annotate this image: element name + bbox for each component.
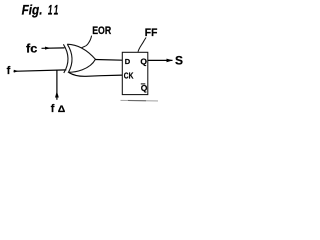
svg-text:fc: fc: [26, 43, 38, 55]
wire fc input: [42, 47, 65, 49]
wire f input: [14, 70, 67, 71]
XOR gate U1 body: [67, 44, 95, 72]
wire XOR output to D: [95, 59, 122, 62]
scan artifact streak: [121, 99, 159, 102]
svg-text:f: f: [51, 103, 55, 115]
leader line to EOR: [81, 36, 91, 48]
svg-text:Q: Q: [141, 83, 148, 93]
arrowhead S: [167, 59, 173, 63]
arrowhead fc: [45, 47, 51, 50]
overbar of Q-bar: [141, 83, 146, 85]
svg-text:CK: CK: [124, 70, 134, 80]
wire f branch to CK: [69, 73, 122, 77]
flip-flop U2 (FF) box: [122, 52, 148, 94]
svg-text:Q: Q: [140, 56, 147, 66]
wire Q output to S: [148, 59, 173, 61]
svg-text:Fig.: Fig.: [22, 2, 43, 18]
svg-text:1: 1: [54, 2, 59, 18]
svg-text:S: S: [175, 53, 183, 67]
svg-text:EOR: EOR: [92, 25, 111, 37]
arrowhead f: [14, 70, 19, 73]
svg-text:1: 1: [48, 2, 53, 18]
XOR gate U1 (EOR) input arc: [63, 44, 68, 73]
arrowhead f-delta: [55, 91, 59, 98]
svg-text:Δ: Δ: [58, 103, 66, 114]
svg-text:FF: FF: [145, 27, 158, 39]
wire f-delta vertical: [56, 70, 58, 100]
leader line to FF: [138, 37, 146, 51]
svg-text:D: D: [125, 57, 131, 66]
svg-text:f: f: [7, 65, 11, 77]
